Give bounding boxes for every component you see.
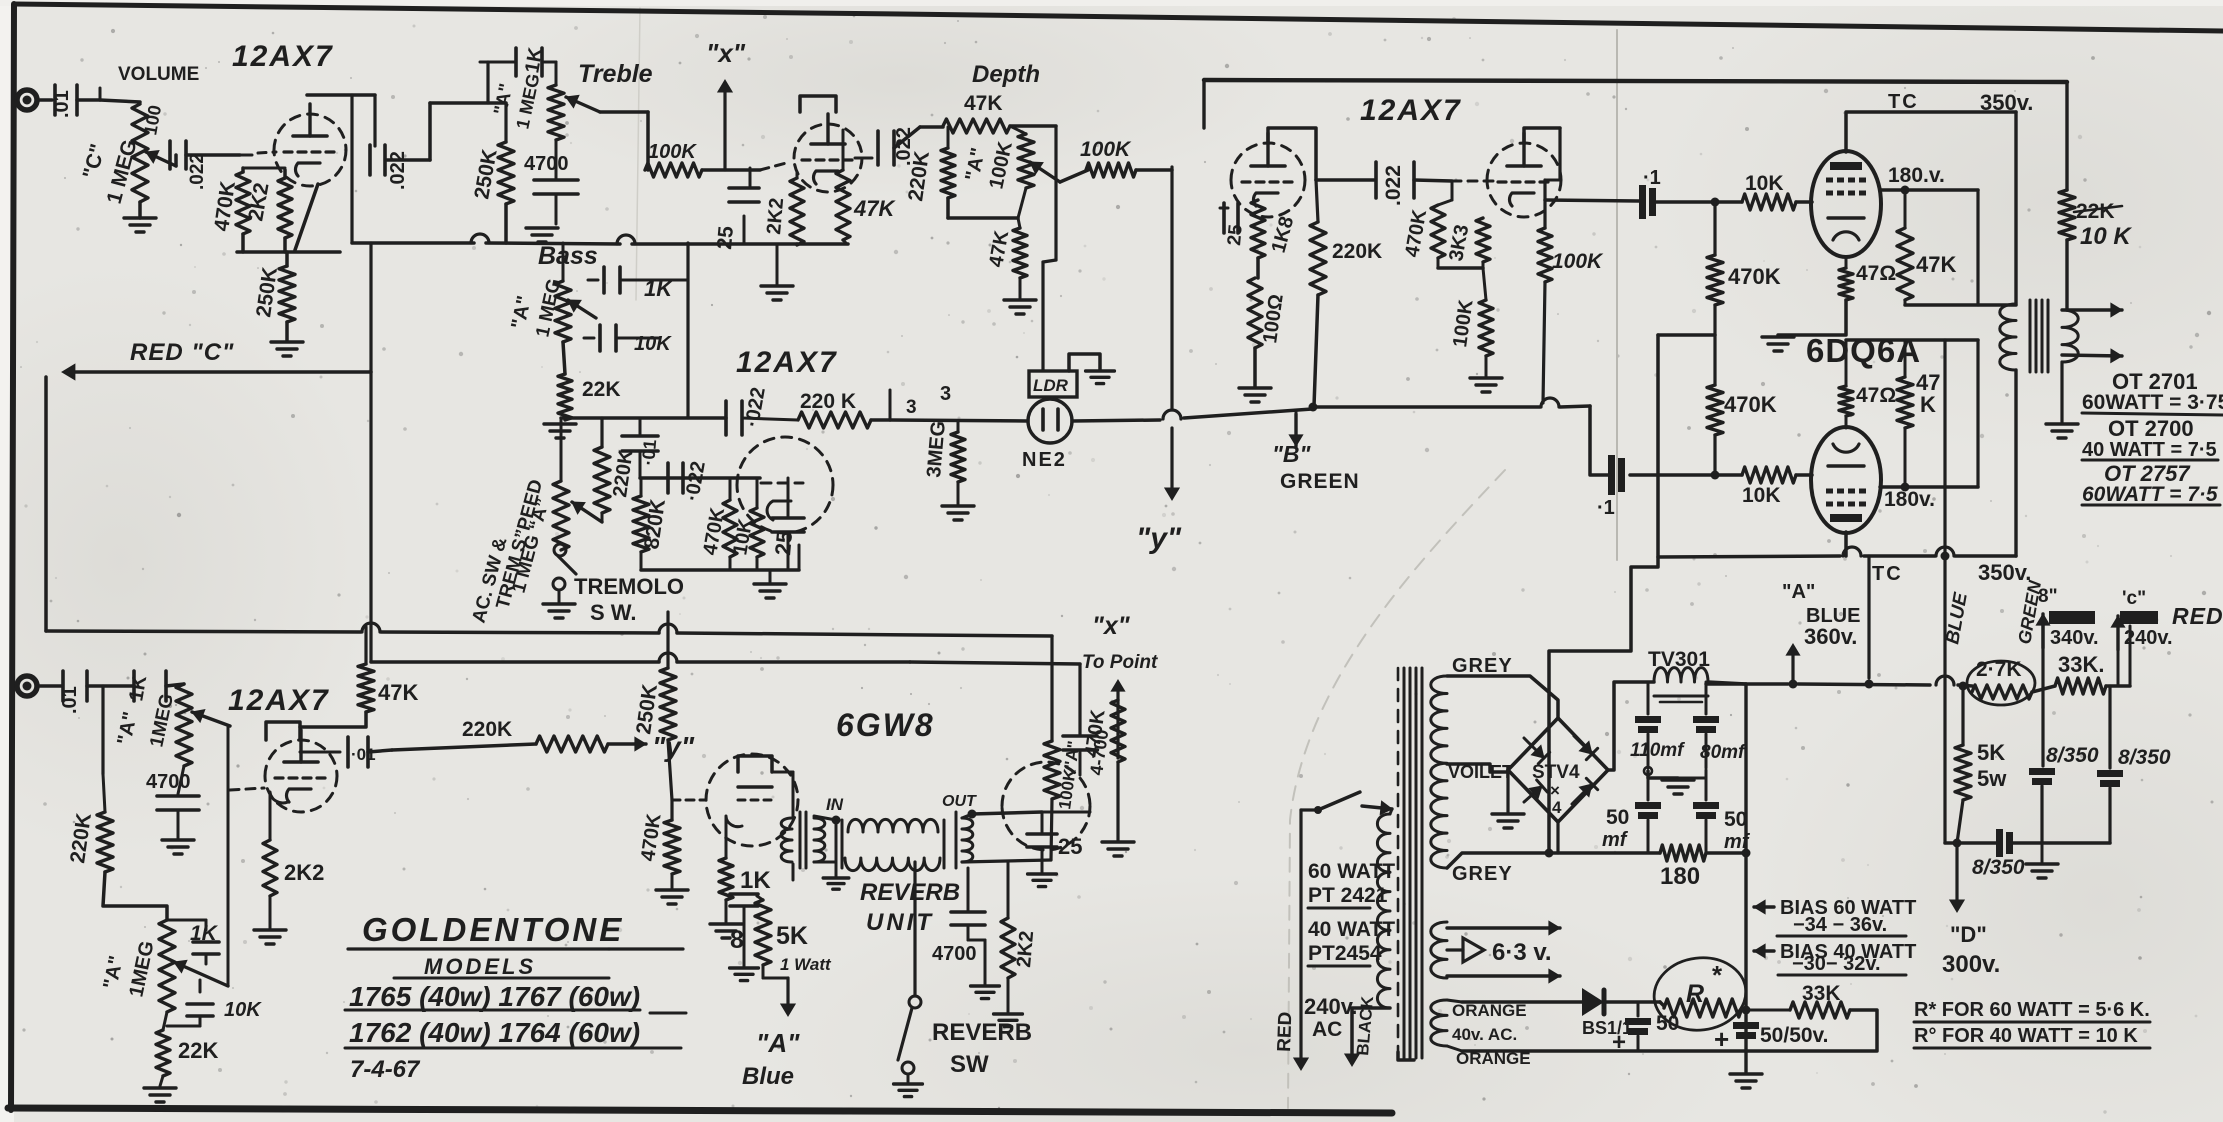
wire .022 up to tone stack xyxy=(428,103,432,160)
volume pot wiper arrow xyxy=(146,152,176,166)
treble pot 1MEG xyxy=(548,85,564,140)
svg-text:Blue: Blue xyxy=(742,1063,794,1090)
wire 2.7K to 33K xyxy=(2032,686,2055,692)
cathode 6GW8 to 1K xyxy=(726,816,742,858)
reverb switch xyxy=(909,996,921,1008)
bridge rectifier STV4 xyxy=(1508,718,1608,822)
ground main 1746 xyxy=(1730,1072,1762,1075)
reverb driver transformer core xyxy=(799,812,802,868)
trem dashed tube V2b xyxy=(737,437,833,485)
svg-text:47K: 47K xyxy=(964,92,1003,115)
capacitor 50mf left xyxy=(1647,778,1650,800)
svg-text:10K: 10K xyxy=(1745,172,1784,195)
resistor 47K upper xyxy=(1904,190,1907,228)
svg-text:220K: 220K xyxy=(1332,240,1382,263)
wire rail corner at 1204 xyxy=(1202,80,1205,128)
svg-text:.01: .01 xyxy=(59,686,81,714)
wire depth rail right leg xyxy=(1010,124,1056,128)
resistor 100K A reverb xyxy=(1044,741,1060,799)
long rail mid y632 xyxy=(46,631,361,632)
svg-text:40 WATT: 40 WATT xyxy=(1308,918,1395,941)
wire PI to .1 lower xyxy=(1590,406,1610,475)
resistor 220K PI xyxy=(1316,180,1318,222)
svg-text:22K: 22K xyxy=(178,1038,218,1063)
svg-text:"x": "x" xyxy=(1092,612,1131,640)
svg-text:IN: IN xyxy=(826,795,844,814)
arrow A blue up xyxy=(1791,650,1794,682)
svg-text:PT 2421: PT 2421 xyxy=(1308,884,1388,907)
svg-text:·01: ·01 xyxy=(638,439,660,467)
wire jack1 to C1 xyxy=(37,98,52,102)
capacitor A 1K treble top xyxy=(480,61,516,64)
capacitor .022 osc out xyxy=(724,401,728,435)
OPT secondary ground xyxy=(2060,362,2063,422)
svg-text:47K: 47K xyxy=(1916,252,1956,277)
capacitor 25 reverb xyxy=(1041,812,1044,832)
PT core dashed left xyxy=(1397,668,1400,1058)
capacitor 4700 reverb xyxy=(967,890,970,910)
reverb pickup coil xyxy=(962,818,973,862)
wire treble pot frame xyxy=(486,62,489,103)
bass top rail xyxy=(352,241,474,245)
wire cathode V1a down xyxy=(295,184,318,250)
lower TC rail y556 xyxy=(1658,556,1840,557)
wire 1978 vertical lower xyxy=(1976,340,1979,487)
PT HV secondary winding xyxy=(1431,676,1447,868)
ground treble 4700 xyxy=(526,226,558,229)
svg-text:350v.: 350v. xyxy=(1978,560,2031,585)
svg-text:R* FOR 60 WATT = 5·6 K.: R* FOR 60 WATT = 5·6 K. xyxy=(1914,999,2150,1021)
svg-text:"y": "y" xyxy=(1136,522,1182,555)
triode V3a PI xyxy=(1231,143,1305,180)
ground 470K 6GW8 xyxy=(671,874,674,888)
bias feed tap xyxy=(1658,333,1715,337)
svg-text:5K: 5K xyxy=(1977,740,2005,765)
blue line vertical xyxy=(1943,340,1946,556)
resistor 10K upper xyxy=(1742,194,1796,210)
wire 220K ch2 down xyxy=(103,872,167,920)
resistor 33K bias xyxy=(1746,1009,1790,1012)
resistor 22K struck + 10K xyxy=(2065,82,2068,190)
svg-text:OUT: OUT xyxy=(942,793,977,810)
wire V4 plate right xyxy=(1880,188,1978,192)
wire OUT up xyxy=(968,810,977,819)
wire .1 upper to 10K xyxy=(1656,200,1715,204)
resistor 47ohm upper cathode xyxy=(1845,257,1848,268)
OPT primary winding xyxy=(2000,304,2016,370)
wire orange bottom xyxy=(1447,1046,1462,1051)
svg-text:TC: TC xyxy=(1888,91,1919,113)
ground 25 reverb xyxy=(1041,847,1044,872)
wire IN down xyxy=(814,816,836,820)
svg-text:"B": "B" xyxy=(1272,441,1312,467)
ground LDR xyxy=(1086,369,1115,372)
wire 1978 vertical xyxy=(1976,190,1979,305)
depth pot A 100K xyxy=(1010,126,1026,134)
svg-text:33K: 33K xyxy=(1802,982,1841,1005)
svg-text:−30− 32v.: −30− 32v. xyxy=(1792,953,1881,975)
triode V1a 12AX7 input xyxy=(274,114,346,150)
ground 470K X xyxy=(1102,840,1134,843)
border bottom line xyxy=(8,1108,1392,1113)
svg-text:5w: 5w xyxy=(1977,766,2007,791)
svg-text:220K: 220K xyxy=(462,718,512,741)
ground 22K trem xyxy=(544,422,576,425)
rail y340 xyxy=(1846,338,1978,342)
resistor 250K tone input xyxy=(504,103,507,142)
wire 100K to X junction xyxy=(702,168,760,172)
resistor 220K depth xyxy=(941,148,955,198)
wire choke to B+ xyxy=(1708,682,1746,684)
grid dash V3b xyxy=(1452,180,1498,183)
resistor 10K lower xyxy=(1742,467,1796,483)
svg-text:100K: 100K xyxy=(648,141,697,163)
wire bass pot bottom to 22K xyxy=(563,342,565,374)
LDR box xyxy=(1029,371,1077,397)
svg-text:40 WATT = 7·5 o: 40 WATT = 7·5 o xyxy=(2082,439,2223,461)
svg-text:47Ω: 47Ω xyxy=(1856,384,1896,407)
svg-text:MODELS: MODELS xyxy=(424,954,536,979)
OPT output arrow bottom xyxy=(2062,355,2122,356)
capacitor 10K bass xyxy=(598,325,602,351)
capacitor .01 input ch1 xyxy=(53,85,57,115)
svg-text:4700: 4700 xyxy=(146,771,191,793)
resistor 22K trem xyxy=(558,374,572,420)
svg-text:GOLDENTONE: GOLDENTONE xyxy=(362,911,624,948)
resistor 47ohm lower cathode xyxy=(1845,416,1848,428)
svg-text:60WATT = 3·75: 60WATT = 3·75 xyxy=(2082,391,2223,414)
svg-text:GREY: GREY xyxy=(1452,863,1513,885)
resistor 47K stage2 xyxy=(358,664,374,712)
ground 250K stage1 xyxy=(271,340,303,343)
ground 8ohm xyxy=(730,966,759,969)
wire C1 to volume pot xyxy=(100,100,140,102)
input jack J1 xyxy=(17,90,37,110)
svg-text:RED "C": RED "C" xyxy=(130,339,234,366)
capacitor 25 trem cathode xyxy=(749,168,752,186)
svg-text:180: 180 xyxy=(1660,863,1700,890)
ground bridge xyxy=(1506,770,1509,812)
wire OUT node down xyxy=(967,868,970,890)
volume pot 1MEG xyxy=(132,104,148,202)
svg-text:.022: .022 xyxy=(1382,165,1405,206)
svg-text:LDR: LDR xyxy=(1033,376,1069,395)
svg-text:1762 (40w) 1764 (60w): 1762 (40w) 1764 (60w) xyxy=(349,1017,640,1048)
grid dash wire tube V1a xyxy=(240,154,252,157)
svg-text:8/350: 8/350 xyxy=(2118,746,2171,769)
ground between caps xyxy=(1648,771,1678,778)
OPT output arrow top xyxy=(2062,308,2122,311)
6.3v arrows xyxy=(1447,926,1560,929)
resistor 22K ch2 xyxy=(163,1012,167,1030)
wire RED C with left arrow xyxy=(68,370,371,374)
svg-text:VOLUME: VOLUME xyxy=(118,64,199,85)
resistor 250K reverb drive xyxy=(666,612,669,668)
PT core lines xyxy=(1403,668,1406,1058)
svg-text:To Point: To Point xyxy=(1082,652,1158,673)
black lead xyxy=(1352,1008,1390,1060)
ground 2K2 stage2 xyxy=(269,896,272,928)
svg-text:10K: 10K xyxy=(224,999,262,1021)
capacitor 50mf right xyxy=(1705,778,1708,800)
red bar line down xyxy=(2117,624,2120,686)
wire grid line ch2 xyxy=(227,726,230,986)
pentode plate bracket xyxy=(738,756,772,772)
depth rail left leg xyxy=(920,125,943,129)
wire TC down to OPT xyxy=(2014,112,2017,304)
wire 220K bottom rail xyxy=(946,198,950,218)
reverb spring bottom xyxy=(845,858,940,871)
resistor 220K osc xyxy=(600,418,603,447)
arrow X point xyxy=(723,86,726,170)
PT bias winding xyxy=(1431,1000,1447,1046)
border top line xyxy=(14,4,2223,31)
resistor 3K3 PI xyxy=(1476,218,1490,262)
reverb spring top xyxy=(848,819,938,832)
wire 100ohm to ground xyxy=(1253,348,1257,386)
bias arrow 40 xyxy=(1754,949,1774,952)
trem osc rail y418 xyxy=(561,416,726,420)
capacitor 1K bass xyxy=(602,267,606,293)
svg-text:·1: ·1 xyxy=(1597,497,1615,519)
green line down xyxy=(2041,624,2044,766)
svg-text:50: 50 xyxy=(1724,808,1747,831)
grid dashes V2b xyxy=(761,482,803,485)
svg-text:60 WATT: 60 WATT xyxy=(1308,860,1395,883)
cathode V6 to 2K2 xyxy=(270,792,288,840)
svg-text:"D": "D" xyxy=(1950,922,1987,947)
reverb spring frame xyxy=(841,820,844,868)
svg-text:K: K xyxy=(1920,392,1936,417)
svg-text:180.v.: 180.v. xyxy=(1888,164,1945,187)
neon NE2 xyxy=(1028,399,1072,443)
wire screen junction down xyxy=(1867,556,1870,678)
svg-text:180v.: 180v. xyxy=(1884,488,1935,511)
wire treble wiper rail xyxy=(600,110,648,114)
svg-text:1K: 1K xyxy=(125,673,151,703)
resistor 220K osc out xyxy=(742,418,798,420)
top rail B+ y82 xyxy=(1204,80,2067,82)
resistor 470K PI xyxy=(1451,181,1454,200)
resistor 100K to PI xyxy=(1086,163,1136,177)
arrow D down xyxy=(1955,843,1958,904)
svg-text:"A": "A" xyxy=(1782,581,1815,603)
plate bracket V1a xyxy=(307,93,375,97)
arrow to Y xyxy=(608,742,646,745)
wire 470K mid xyxy=(1713,305,1716,385)
bias arrow 60 xyxy=(1754,905,1774,908)
capacitor 80mf xyxy=(1705,682,1708,714)
svg-text:RED: RED xyxy=(1274,1011,1296,1052)
OPT secondary winding xyxy=(2062,310,2078,362)
svg-text:RED: RED xyxy=(2172,603,2223,629)
svg-text:SW: SW xyxy=(950,1051,989,1078)
coupling .01 stage2 xyxy=(300,751,340,754)
ground 3MEG xyxy=(942,504,974,507)
resistor 470K stage1 xyxy=(241,168,245,172)
wire 250K down to 6GW8 xyxy=(668,740,672,800)
svg-text:AC: AC xyxy=(1312,1018,1342,1041)
resistor 1K 6GW8 xyxy=(719,858,733,900)
wire V3b plate to .1 cap xyxy=(1545,200,1639,201)
svg-text:3: 3 xyxy=(906,397,917,418)
volume pot ch2 xyxy=(176,684,192,766)
coupling capacitor .022 stage1 xyxy=(368,145,372,175)
ground tremolo switch xyxy=(543,602,575,605)
ground 47K depth xyxy=(1004,298,1036,301)
resistor 820K xyxy=(633,496,649,552)
cathode rail stage1 xyxy=(243,167,285,170)
grid wire 6GW8 xyxy=(672,799,706,802)
wire 4700 to ground xyxy=(968,939,985,942)
resistor R circled xyxy=(1650,953,1750,1036)
wire reverb sw vertical xyxy=(913,862,916,996)
wire bridge bottom to rail xyxy=(1556,822,1559,853)
svg-text:8: 8 xyxy=(730,926,744,954)
dashed triode 6GW8b xyxy=(1002,762,1090,806)
capacitor .01 ch2 xyxy=(61,671,65,701)
wire 180 to main vert xyxy=(1706,851,1742,855)
resistor 33K right xyxy=(2055,678,2106,694)
resistor 5K 1watt xyxy=(757,896,763,900)
wire grey bottom xyxy=(1447,853,1545,868)
plate bracket V3a xyxy=(1268,128,1316,180)
pot A 1MEG ch2 xyxy=(159,920,175,1012)
svg-text:TC: TC xyxy=(1872,563,1903,585)
plate bracket V3b xyxy=(1524,128,1560,144)
svg-text:12AX7: 12AX7 xyxy=(736,346,838,379)
svg-text:33K.: 33K. xyxy=(2058,652,2104,677)
OPT core xyxy=(2029,300,2032,372)
capacitor 8ohm tap xyxy=(730,892,758,896)
resistor 100K V3b plate xyxy=(1558,128,1561,180)
grid dash V6 xyxy=(230,788,264,790)
svg-text:6·3 v.: 6·3 v. xyxy=(1492,939,1552,966)
wire rail2 to 4-700 xyxy=(910,662,1080,664)
svg-text:mf: mf xyxy=(1602,829,1629,851)
resistor 250K stage1 xyxy=(285,252,289,266)
wire 33K loop xyxy=(1746,1010,1877,1051)
capacitor 10K ch2b xyxy=(187,1002,213,1006)
svg-text:25: 25 xyxy=(713,225,738,251)
resistor 47K trem xyxy=(842,130,845,170)
svg-text:340v.: 340v. xyxy=(2050,627,2099,649)
wire 100K PI right xyxy=(1136,168,1172,172)
connector bar B green xyxy=(2049,611,2095,624)
resistor 100K to X xyxy=(645,163,702,177)
triode V6 ch2 xyxy=(265,740,337,776)
svg-text:·1: ·1 xyxy=(1643,167,1661,189)
capacitor 8/350 no1 xyxy=(2029,768,2055,775)
svg-text:1765 (40w) 1767 (60w): 1765 (40w) 1767 (60w) xyxy=(349,981,640,1012)
capacitor 25 PI xyxy=(1220,207,1228,210)
svg-text:22K: 22K xyxy=(582,378,621,401)
arrow up bar2 xyxy=(2116,616,2119,650)
svg-text:GREEN: GREEN xyxy=(1280,470,1360,493)
wire grey top to bridge xyxy=(1447,676,1558,718)
svg-text:1K: 1K xyxy=(190,922,219,945)
wire B rail right xyxy=(1313,405,1540,409)
cathode hook V2b xyxy=(767,501,791,520)
plate bracket V2a xyxy=(800,96,836,112)
wire 47K to plate xyxy=(300,712,366,727)
wire orange top xyxy=(1447,1000,1462,1002)
wire left tall loop down xyxy=(44,377,48,631)
wire 47K stage2 xyxy=(364,627,367,664)
capacitor .1 lower coupling xyxy=(1608,455,1615,495)
wire ch2 node down xyxy=(101,686,104,774)
wire OUT bottom rail xyxy=(962,860,1051,862)
svg-text:300v.: 300v. xyxy=(1942,951,2000,978)
ground 22K ch2 xyxy=(160,1076,163,1086)
capacitor .022 osc xyxy=(666,463,670,493)
capacitor .022 ch1 wiper xyxy=(174,155,178,166)
svg-text:8/350: 8/350 xyxy=(2046,744,2099,767)
wire bass right leg xyxy=(686,243,689,418)
red lead down arrow xyxy=(1301,808,1318,811)
osc bottom rail xyxy=(641,568,799,572)
resistor 220K ch2 xyxy=(103,774,105,812)
svg-text:12AX7: 12AX7 xyxy=(228,684,330,717)
wire osc out to NE2 xyxy=(871,418,890,422)
svg-text:−34 − 36v.: −34 − 36v. xyxy=(1793,914,1887,936)
svg-text:25: 25 xyxy=(1224,223,1247,246)
wire depth to LDR xyxy=(1054,126,1057,260)
wire PI bottom rail xyxy=(1438,266,1483,270)
coupling capacitor .022 PI xyxy=(1316,178,1374,182)
bass wiper arrow xyxy=(568,300,596,318)
resistor 470K X xyxy=(1111,700,1125,762)
svg-text:2K2: 2K2 xyxy=(284,860,324,885)
trem pot wiper arrow xyxy=(601,513,604,522)
svg-text:"x": "x" xyxy=(706,38,746,68)
long rail mid y662 xyxy=(371,660,659,664)
bottom cap lead V5 xyxy=(1844,532,1848,556)
capacitor 50/50v xyxy=(1733,1022,1759,1029)
capacitor 8/350 no3 horizontal xyxy=(1996,829,2003,857)
arrow X to point xyxy=(1116,686,1119,758)
resistor 47K lower xyxy=(1904,340,1907,377)
node above volume pot xyxy=(99,88,102,100)
ground 1K 6GW8 xyxy=(725,900,728,922)
svg-text:REVERB: REVERB xyxy=(932,1019,1032,1046)
PT 6.3V winding xyxy=(1431,922,1447,978)
connector bar C red xyxy=(2120,611,2158,624)
svg-text:7-4-67: 7-4-67 xyxy=(350,1056,421,1083)
svg-text:+: + xyxy=(1714,1024,1729,1054)
svg-text:40v. AC.: 40v. AC. xyxy=(1452,1025,1517,1044)
triode V3b PI xyxy=(1487,143,1561,180)
resistor 2K2 stage2 xyxy=(263,840,277,896)
top cap lead V4 xyxy=(1846,112,2016,152)
ground reverb switch xyxy=(894,1082,923,1085)
svg-text:"y": "y" xyxy=(652,731,695,762)
svg-text:10 K: 10 K xyxy=(2080,223,2132,250)
svg-text:GREY: GREY xyxy=(1452,655,1513,677)
ground reverb in xyxy=(823,876,849,879)
wire 5K to A blue arrow xyxy=(762,965,765,978)
rail y843 bottom right xyxy=(1945,841,1996,845)
wire cathode to ground upper xyxy=(1778,300,1846,335)
svg-text:47K: 47K xyxy=(378,680,418,705)
wire 250K to bass rail xyxy=(504,204,508,243)
primary winding xyxy=(1377,814,1390,1008)
trem speed pot xyxy=(553,481,569,550)
resistor 470K osc xyxy=(729,478,732,500)
svg-text:60WATT = 7·5: 60WATT = 7·5 xyxy=(2082,483,2218,506)
svg-text:470K: 470K xyxy=(1724,392,1777,417)
svg-text:·01: ·01 xyxy=(351,745,376,764)
